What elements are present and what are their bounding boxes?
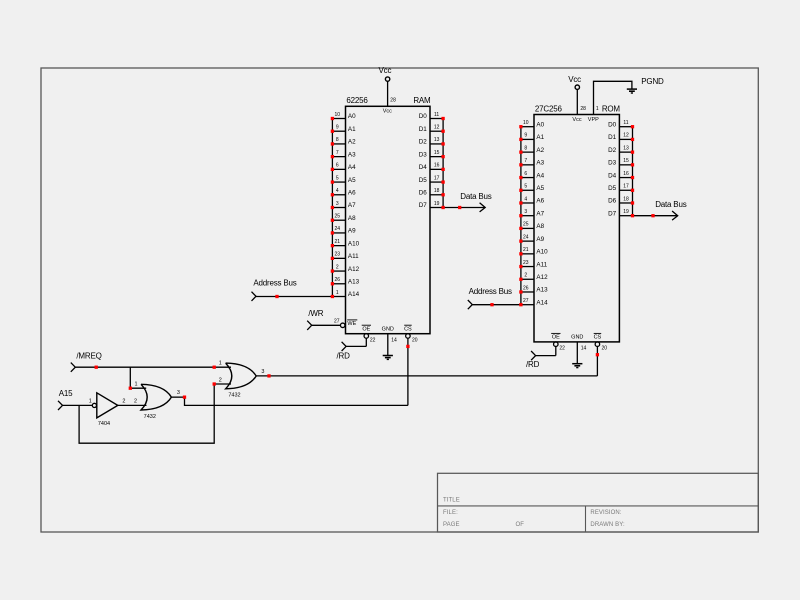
svg-text:13: 13	[434, 137, 440, 143]
svg-text:19: 19	[623, 209, 629, 215]
svg-text:25: 25	[523, 222, 529, 228]
svg-text:22: 22	[370, 338, 376, 344]
ROM pin 14 GND	[571, 335, 586, 368]
svg-text:A2: A2	[348, 139, 356, 146]
ROM U2 pin 6 A4	[519, 171, 544, 179]
RAM U1 pin 7 A3	[331, 150, 356, 158]
svg-text:A11: A11	[536, 261, 547, 268]
ROM VPP pin 1 wire to PGND	[588, 81, 632, 123]
svg-text:25: 25	[335, 214, 341, 220]
svg-text:/RD: /RD	[526, 360, 540, 369]
svg-text:62256: 62256	[346, 96, 368, 105]
ROM U2 pin 25 A8	[519, 222, 544, 230]
svg-text:RAM: RAM	[413, 96, 431, 105]
svg-text:D5: D5	[419, 177, 428, 184]
svg-text:A6: A6	[536, 198, 544, 205]
svg-text:Vcc: Vcc	[383, 109, 392, 115]
RAM U1 pin 15 D3	[419, 150, 445, 158]
RAM U1 pin 24 A9	[331, 226, 356, 234]
svg-text:A14: A14	[348, 291, 360, 298]
svg-text:A0: A0	[536, 121, 544, 128]
svg-text:A4: A4	[536, 172, 544, 179]
svg-text:D0: D0	[419, 113, 428, 120]
svg-text:28: 28	[580, 106, 586, 112]
svg-text:2: 2	[122, 399, 125, 405]
svg-text:2: 2	[336, 264, 339, 270]
wire U4 output pin 3 to ROM CS	[256, 374, 597, 377]
svg-text:18: 18	[434, 188, 440, 194]
svg-text:A7: A7	[348, 202, 356, 209]
RAM U1 pin 13 D2	[419, 137, 445, 145]
svg-text:9: 9	[336, 125, 339, 131]
svg-text:6: 6	[524, 171, 527, 177]
ROM U2 pin 11 D0	[608, 120, 634, 128]
svg-text:PGND: PGND	[641, 77, 664, 86]
svg-text:5: 5	[336, 175, 339, 181]
svg-text:PAGE: PAGE	[443, 522, 460, 528]
RAM U1 pin 21 A10	[331, 239, 360, 247]
svg-text:/RD: /RD	[337, 352, 351, 361]
svg-text:17: 17	[434, 175, 440, 181]
wire Address Bus to ROM A14	[472, 303, 522, 306]
RAM U1 pin 23 A11	[331, 252, 359, 260]
svg-text:18: 18	[623, 196, 629, 202]
svg-text:D5: D5	[608, 185, 617, 192]
svg-text:3: 3	[336, 201, 339, 207]
svg-text:A7: A7	[536, 210, 544, 217]
svg-text:A11: A11	[348, 253, 359, 260]
svg-text:GND: GND	[382, 327, 394, 333]
svg-text:CS: CS	[594, 335, 602, 341]
svg-text:ROM: ROM	[602, 104, 621, 113]
svg-text:A12: A12	[536, 274, 548, 281]
svg-text:23: 23	[335, 252, 341, 258]
ROM U2 pin 8 A2	[519, 145, 544, 153]
svg-text:/WR: /WR	[308, 309, 323, 318]
svg-text:7: 7	[336, 150, 339, 156]
svg-text:A14: A14	[536, 299, 548, 306]
wire U3 output pin 3 to RAM CS	[171, 396, 408, 406]
svg-text:27: 27	[523, 298, 529, 304]
svg-text:8: 8	[524, 145, 527, 151]
svg-text:D2: D2	[608, 147, 617, 154]
svg-text:A6: A6	[348, 189, 356, 196]
svg-text:7432: 7432	[144, 414, 156, 420]
svg-text:11: 11	[623, 120, 628, 126]
svg-text:24: 24	[523, 234, 529, 240]
svg-text:3: 3	[261, 369, 264, 375]
svg-text:D7: D7	[419, 202, 428, 209]
svg-text:20: 20	[602, 346, 608, 352]
svg-text:A0: A0	[348, 113, 356, 120]
ROM pin 20 CS wire to decoder	[594, 333, 608, 376]
OR gate U4 7432 (ROM select)	[213, 361, 265, 399]
svg-text:D7: D7	[608, 210, 617, 217]
svg-text:D6: D6	[608, 198, 617, 205]
ROM U2 pin 21 A10	[519, 247, 548, 255]
svg-text:A1: A1	[536, 134, 544, 141]
svg-text:21: 21	[335, 239, 341, 245]
RAM pin 22 OE with port /RD	[337, 325, 376, 360]
svg-text:5: 5	[524, 184, 527, 190]
RAM U1 pin 16 D4	[419, 163, 445, 171]
svg-text:27C256: 27C256	[535, 104, 563, 113]
svg-text:D1: D1	[608, 134, 617, 141]
RAM U1 pin 5 A5	[331, 175, 356, 183]
RAM pin 27 WE with port /WR	[307, 309, 357, 330]
RAM U1 pin 4 A6	[331, 188, 356, 196]
svg-text:A4: A4	[348, 164, 356, 171]
RAM U1 pin 9 A1	[331, 125, 356, 133]
ROM U2 pin 4 A6	[519, 196, 544, 204]
svg-text:4: 4	[336, 188, 339, 194]
svg-text:OE: OE	[362, 327, 370, 333]
ROM U2 pin 19 D7	[608, 209, 632, 217]
ROM U2 pin 18 D6	[608, 196, 634, 204]
svg-text:A13: A13	[536, 287, 548, 294]
ROM U2 pin 15 D3	[608, 158, 634, 166]
svg-text:26: 26	[523, 285, 529, 291]
svg-text:WE: WE	[347, 321, 356, 327]
ROM U2 pin 5 A5	[519, 184, 544, 192]
svg-text:D4: D4	[608, 172, 617, 179]
svg-text:16: 16	[623, 171, 629, 177]
port A15	[58, 389, 73, 410]
svg-text:Vcc: Vcc	[572, 117, 581, 123]
RAM U1 pin 8 A2	[331, 137, 356, 145]
svg-text:9: 9	[524, 133, 527, 139]
RAM U1 pin 11 D0	[419, 112, 445, 120]
svg-text:2: 2	[134, 399, 137, 405]
svg-text:14: 14	[391, 338, 397, 344]
inverter U5 7404	[89, 393, 126, 427]
svg-text:DRAWN BY:: DRAWN BY:	[590, 522, 625, 528]
port /MREQ	[71, 352, 102, 372]
RAM Vcc power terminal pin 28	[379, 66, 397, 115]
svg-text:1: 1	[219, 361, 222, 367]
svg-text:20: 20	[412, 338, 418, 344]
svg-text:D6: D6	[419, 189, 428, 196]
svg-text:Data Bus: Data Bus	[460, 192, 492, 201]
OR gate U3 7432 (RAM select)	[134, 382, 180, 420]
svg-text:A5: A5	[348, 177, 356, 184]
RAM U1 pin 3 A7	[331, 201, 356, 209]
wire A15 to inverter input	[63, 404, 93, 406]
svg-text:TITLE: TITLE	[443, 498, 460, 504]
svg-text:D4: D4	[419, 164, 428, 171]
RAM pin 20 CS wire to decoder	[404, 325, 418, 405]
svg-text:REVISION:: REVISION:	[590, 510, 621, 516]
svg-text:Address Bus: Address Bus	[253, 279, 296, 288]
ROM U2 pin 10 A0	[519, 120, 544, 128]
svg-text:A8: A8	[348, 215, 356, 222]
ROM U2 pin 26 A13	[519, 285, 548, 293]
RAM U1 pin 12 D1	[419, 125, 445, 133]
svg-text:6: 6	[336, 163, 339, 169]
svg-text:OF: OF	[516, 522, 525, 528]
RAM U1 pin 19 D7	[419, 201, 443, 209]
svg-text:A1: A1	[348, 126, 356, 133]
svg-text:A8: A8	[536, 223, 544, 230]
wire /MREQ tap down to OR gate U3 pin 1	[129, 367, 147, 390]
ROM U2 address pin bus vertical wire	[520, 127, 522, 305]
svg-text:A12: A12	[348, 266, 360, 273]
ROM U2 pin 27 A14	[521, 298, 548, 306]
svg-text:10: 10	[335, 112, 341, 118]
RAM U1 data pin bus vertical wire	[442, 119, 444, 208]
svg-text:A15: A15	[59, 389, 73, 398]
ROM U2 pin 3 A7	[519, 209, 544, 217]
svg-text:7404: 7404	[98, 421, 110, 427]
RAM U1 pin 1 A14	[332, 290, 359, 298]
svg-text:Data Bus: Data Bus	[655, 200, 687, 209]
RAM U1 62256 RAM chip body	[346, 96, 432, 334]
RAM U1 address pin bus vertical wire	[331, 119, 333, 297]
svg-text:7: 7	[524, 158, 527, 164]
ROM U2 pin 23 A11	[519, 260, 547, 268]
svg-text:15: 15	[434, 150, 440, 156]
Data Bus arrow (ROM)	[631, 200, 687, 220]
RAM U1 pin 2 A12	[331, 264, 360, 272]
wire inverter output to OR gate U3 pin 2	[118, 404, 147, 406]
svg-text:2: 2	[524, 273, 527, 279]
svg-text:8: 8	[336, 137, 339, 143]
svg-text:1: 1	[596, 106, 599, 112]
svg-text:27: 27	[334, 319, 340, 325]
PGND ground symbol	[627, 77, 664, 93]
svg-text:26: 26	[335, 277, 341, 283]
ROM U2 pin 9 A1	[519, 133, 544, 141]
RAM U1 pin 6 A4	[331, 163, 356, 171]
ROM pin 22 OE with port /RD	[526, 333, 565, 368]
svg-text:Vcc: Vcc	[568, 75, 581, 84]
svg-text:FILE:: FILE:	[443, 510, 458, 516]
svg-text:13: 13	[623, 145, 629, 151]
svg-text:A2: A2	[536, 147, 544, 154]
svg-text:19: 19	[434, 201, 440, 207]
ROM U2 data pin bus vertical wire	[632, 127, 634, 216]
svg-text:3: 3	[524, 209, 527, 215]
svg-text:A9: A9	[536, 236, 544, 243]
svg-text:17: 17	[623, 184, 629, 190]
svg-text:Address Bus: Address Bus	[469, 287, 512, 296]
RAM U1 pin 25 A8	[331, 214, 356, 222]
svg-text:A3: A3	[536, 160, 544, 167]
svg-text:GND: GND	[571, 335, 583, 341]
svg-text:D2: D2	[419, 139, 428, 146]
svg-text:7432: 7432	[228, 392, 240, 398]
ROM U2 pin 7 A3	[519, 158, 544, 166]
wire Address Bus to RAM A14	[256, 295, 334, 298]
Data Bus arrow (RAM)	[441, 192, 491, 212]
svg-text:D3: D3	[419, 151, 428, 158]
svg-text:11: 11	[434, 112, 439, 118]
RAM pin 14 GND	[382, 327, 397, 360]
svg-text:24: 24	[335, 226, 341, 232]
svg-text:A5: A5	[536, 185, 544, 192]
svg-text:D0: D0	[608, 121, 617, 128]
ROM U2 27C256 ROM chip body	[534, 104, 620, 342]
RAM U1 pin 10 A0	[331, 112, 356, 120]
RAM U1 pin 26 A13	[331, 277, 360, 285]
ROM U2 pin 2 A12	[519, 273, 548, 281]
svg-text:21: 21	[523, 247, 529, 253]
svg-text:CS: CS	[404, 327, 412, 333]
svg-text:A9: A9	[348, 228, 356, 235]
svg-text:D1: D1	[419, 126, 428, 133]
ROM U2 pin 13 D2	[608, 145, 634, 153]
ROM U2 pin 16 D4	[608, 171, 634, 179]
svg-text:A3: A3	[348, 151, 356, 158]
title block	[438, 473, 759, 532]
svg-text:16: 16	[434, 163, 440, 169]
svg-text:1: 1	[89, 399, 92, 405]
ROM Vcc power terminal pin 28	[568, 75, 586, 123]
svg-text:A10: A10	[348, 240, 360, 247]
svg-text:/MREQ: /MREQ	[76, 352, 101, 361]
svg-text:VPP: VPP	[588, 117, 599, 123]
svg-text:12: 12	[623, 133, 629, 139]
svg-text:15: 15	[623, 158, 629, 164]
svg-text:28: 28	[390, 98, 396, 104]
svg-text:10: 10	[523, 120, 529, 126]
wire /MREQ to OR gate U4 pin 1	[75, 366, 231, 369]
svg-text:D3: D3	[608, 160, 617, 167]
svg-text:12: 12	[434, 125, 440, 131]
svg-text:OE: OE	[552, 335, 560, 341]
svg-text:2: 2	[219, 377, 222, 383]
svg-text:1: 1	[336, 290, 339, 296]
wire A15 branch down-around to OR gate U4 pin 2	[79, 384, 214, 443]
port Address Bus (ROM)	[468, 287, 512, 309]
ROM U2 pin 17 D5	[608, 184, 634, 192]
RAM U1 pin 17 D5	[419, 175, 445, 183]
ROM U2 pin 12 D1	[608, 133, 634, 141]
svg-text:A13: A13	[348, 278, 360, 285]
port Address Bus (RAM)	[252, 279, 297, 301]
ROM U2 pin 24 A9	[519, 234, 544, 242]
svg-text:14: 14	[581, 346, 587, 352]
svg-text:23: 23	[523, 260, 529, 266]
svg-text:Vcc: Vcc	[379, 66, 392, 75]
RAM U1 pin 18 D6	[419, 188, 445, 196]
svg-text:3: 3	[177, 390, 180, 396]
svg-text:A10: A10	[536, 249, 548, 256]
svg-text:1: 1	[134, 382, 137, 388]
svg-text:4: 4	[524, 196, 527, 202]
svg-text:22: 22	[559, 346, 565, 352]
